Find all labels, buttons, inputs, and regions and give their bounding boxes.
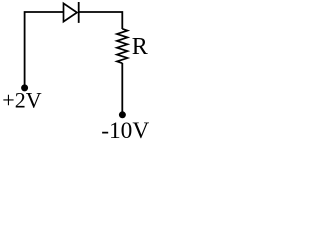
diode cathode bar [78, 2, 80, 23]
wire: resistor bottom to -10V node [121, 63, 123, 112]
resistor R zigzag [117, 29, 128, 63]
node dot +2V terminal [21, 84, 28, 91]
wire: left vertical + top-left horizontal from +2V node to diode anode [25, 12, 64, 85]
svg-text:-10V: -10V [101, 118, 149, 144]
diode triangle (anode) [64, 3, 78, 21]
svg-text:+2V: +2V [2, 88, 41, 113]
svg-text:R: R [132, 34, 148, 60]
node dot -10V terminal [119, 111, 126, 118]
wire: diode cathode to top-right corner, down to resistor top [79, 12, 123, 29]
